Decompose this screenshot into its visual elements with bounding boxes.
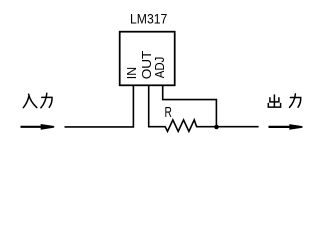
resistor R — [165, 120, 196, 131]
svg-text:LM317: LM317 — [130, 11, 167, 27]
junction dot — [214, 125, 219, 130]
svg-text:IN: IN — [124, 67, 139, 79]
wire ADJ pin to junction — [163, 85, 217, 127]
svg-text:R: R — [165, 104, 173, 121]
wire OUT pin down to resistor — [149, 85, 166, 127]
input arrow — [21, 124, 55, 130]
node label 入力 (input) — [23, 93, 52, 108]
regulator U1 LM317 body — [120, 32, 175, 86]
svg-text:ADJ: ADJ — [152, 57, 167, 79]
wire resistor to output net — [196, 126, 259, 128]
node label 出力 (output) — [268, 94, 300, 107]
output arrow — [269, 124, 303, 130]
wire input net to IN pin — [65, 85, 134, 127]
